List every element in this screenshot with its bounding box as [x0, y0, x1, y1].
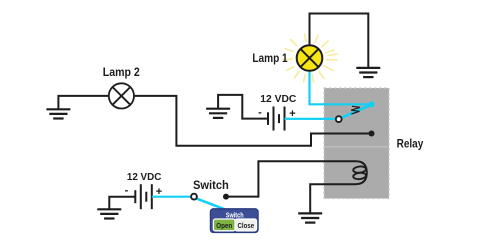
- junction dot relay upper contact: [369, 131, 375, 137]
- svg-text:Switch: Switch: [193, 178, 229, 192]
- wire switch to relay coil: [229, 161, 357, 196]
- relay pivot (open contact circle): [336, 116, 342, 122]
- svg-text:-: -: [258, 107, 262, 119]
- svg-text:Relay: Relay: [397, 138, 424, 150]
- wire mid battery minus to ground: [218, 95, 268, 119]
- relay actuator zigzag: [351, 106, 360, 114]
- wire lamp1 top to ground: [310, 14, 369, 68]
- lamp L1 cross: [301, 49, 319, 67]
- button Close: [235, 219, 256, 231]
- ground (top right): [356, 68, 380, 77]
- switch control panel: [210, 209, 258, 233]
- lamp L2 circle: [109, 83, 134, 108]
- switch pivot (open contact circle): [191, 194, 197, 200]
- svg-text:Lamp 2: Lamp 2: [103, 65, 140, 79]
- battery B1 (12 VDC mid): [268, 107, 285, 131]
- wire lamp2 to relay NO contact: [134, 96, 371, 146]
- cyan wire lower battery to switch: [152, 196, 191, 198]
- svg-text:Open: Open: [216, 221, 232, 230]
- svg-text:-: -: [125, 185, 129, 197]
- lamp L2 cross: [113, 87, 131, 105]
- switch fixed contact dot: [223, 194, 229, 200]
- coil loop 1: [353, 166, 366, 174]
- svg-text:Lamp 1: Lamp 1: [252, 51, 287, 65]
- ground (mid battery): [206, 109, 230, 118]
- lever tip dot: [368, 101, 374, 107]
- button Open: [213, 219, 235, 231]
- relay body (gray box): [324, 88, 389, 199]
- ground (left, lamp2): [46, 109, 70, 118]
- battery B2 (12 VDC lower): [135, 184, 152, 209]
- svg-text:Switch: Switch: [226, 212, 244, 219]
- svg-text:12 VDC: 12 VDC: [127, 172, 162, 183]
- cyan wire lamp1 to relay lever tip: [310, 71, 370, 105]
- svg-text:Close: Close: [238, 221, 255, 230]
- wire lamp2 left to ground: [58, 96, 108, 109]
- relay coil: [355, 161, 367, 184]
- relay lever (cyan): [342, 105, 371, 118]
- wire lower battery to ground: [109, 197, 134, 209]
- lamp L1 circle: [297, 45, 323, 71]
- ground (relay coil): [298, 213, 322, 222]
- cyan wire mid battery to relay common: [285, 118, 336, 120]
- coil loop 2: [353, 172, 366, 180]
- ground (lower battery): [97, 209, 121, 218]
- switch lever (cyan, open): [197, 199, 225, 210]
- wire coil to ground: [310, 184, 355, 212]
- svg-text:12 VDC: 12 VDC: [260, 94, 296, 105]
- relay section divider: [324, 146, 389, 148]
- lamp1 rays: [284, 34, 338, 83]
